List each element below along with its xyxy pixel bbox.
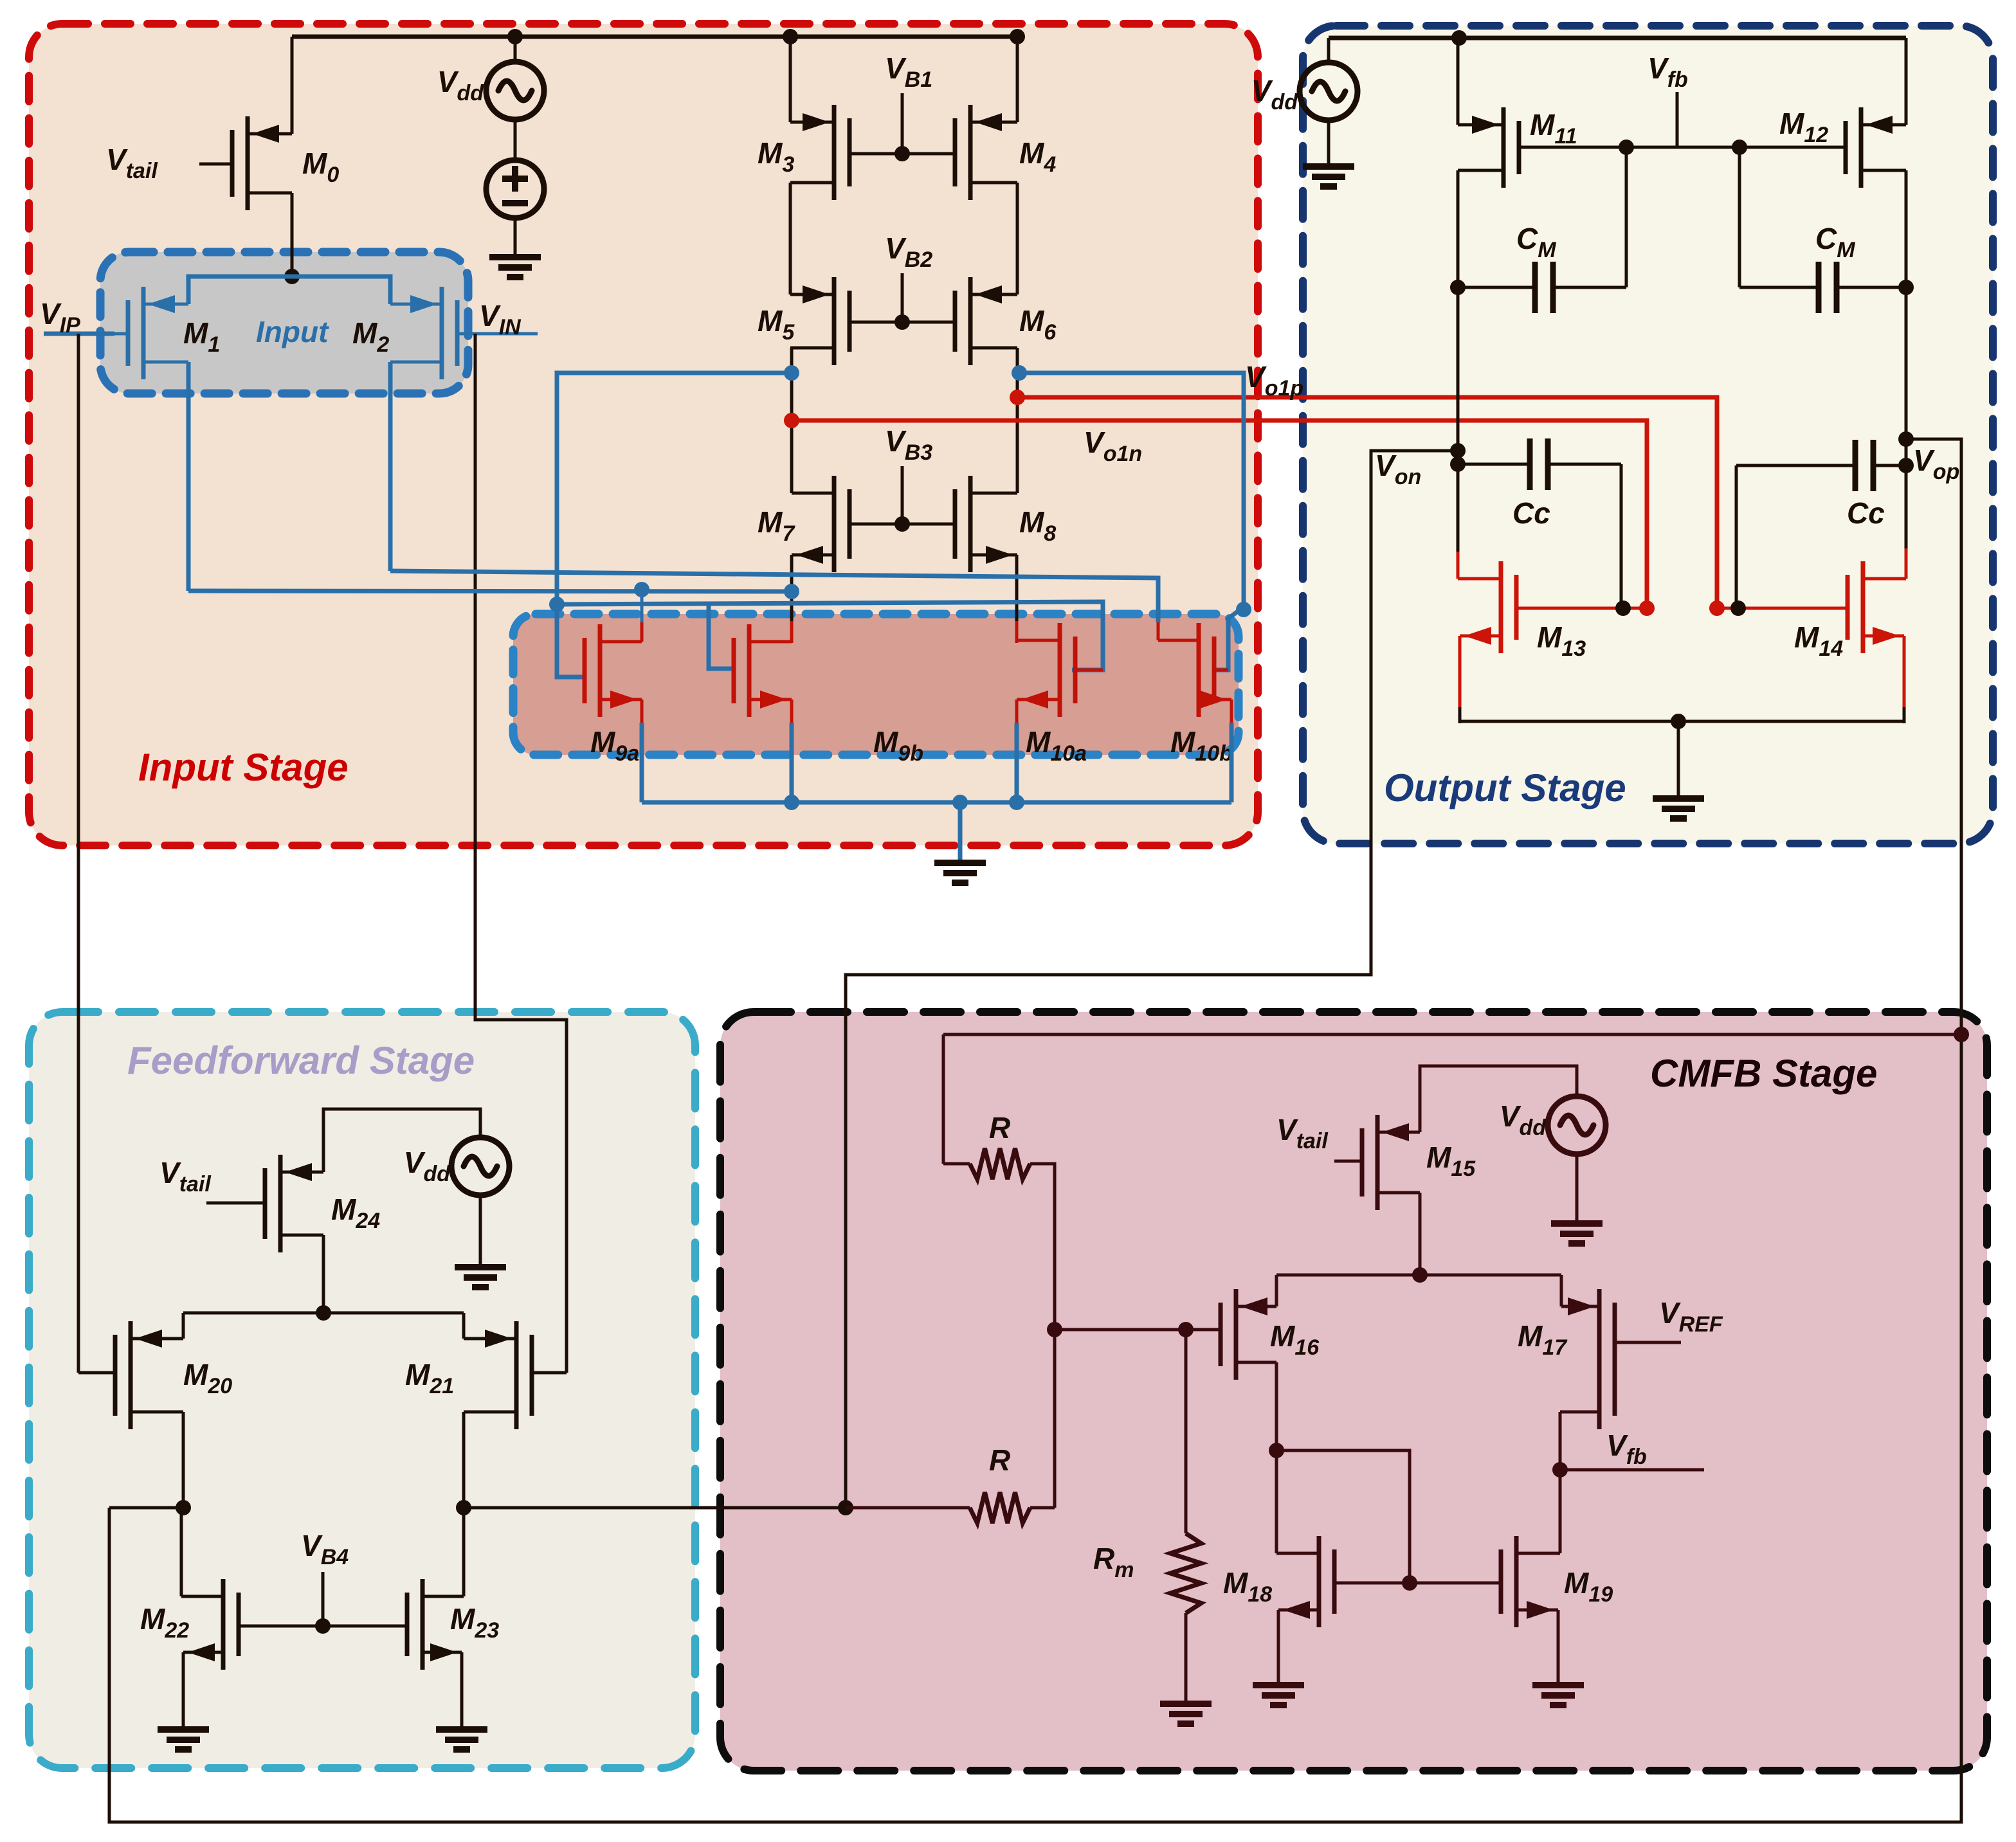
ground (M19)	[1532, 1682, 1584, 1688]
wire M1 drain down	[186, 362, 191, 591]
wire M9/M10 source bus	[642, 800, 1231, 805]
wire M24 source down to pair	[322, 1235, 325, 1313]
wire M12 source to rail	[1905, 38, 1908, 125]
wire Rm to ground	[1185, 1613, 1188, 1703]
wire M2 drain down	[388, 362, 393, 571]
node dot M1-line end	[784, 584, 799, 599]
svg-text:R: R	[989, 1443, 1010, 1477]
wire Vfb stub to gate line	[1676, 92, 1679, 147]
CMFB Stage box	[720, 1012, 1987, 1771]
node dot right cascode output (blue)	[1012, 365, 1027, 381]
capacitor Cc (left)	[1458, 463, 1530, 466]
transistor M7	[832, 476, 837, 572]
wire M20 drain node to Vop loop	[109, 1506, 183, 1510]
wire right output to M10b gate	[1019, 373, 1244, 670]
wire M7 source down to M9b drain	[790, 555, 794, 622]
wire M10a source down to bus	[1015, 700, 1019, 724]
node dot CM-right tap on gate line	[1732, 140, 1747, 155]
wire between Vdd source and battery	[514, 120, 517, 160]
wire midpoint to M16 gate	[1055, 1328, 1222, 1332]
wire Vop to CMFB top rail and bottom loop	[109, 439, 1961, 1822]
node dot M16 drain / M18 diode	[1269, 1443, 1284, 1458]
node dot bus M9b	[784, 795, 799, 810]
wire Vo1p (red) to output stage M14 gate	[1017, 397, 1717, 608]
transistor M1 (blue input PMOS)	[141, 287, 146, 379]
transistor M22	[221, 1579, 226, 1670]
wire tail bus to ground	[1677, 721, 1680, 798]
node dot Vop lower (Cc)	[1898, 458, 1914, 473]
wire M11 drain down	[1457, 170, 1460, 553]
wire battery to ground	[514, 218, 517, 257]
wire M3 drain to M5 source	[789, 183, 792, 294]
wire M16 source up	[1275, 1275, 1278, 1306]
node dot M14 gate end (Vo1p)	[1709, 600, 1725, 616]
wire M23 drain up to M21	[462, 1508, 466, 1596]
resistor R (upper)	[943, 1162, 970, 1166]
wire M19 drain up to M17 drain	[1559, 1412, 1562, 1553]
wire M3 source to rail	[789, 37, 792, 122]
capacitor CM (left)	[1458, 286, 1536, 289]
node dot gate line start	[549, 597, 565, 612]
node dot M4 rail	[1010, 29, 1025, 44]
wire upper R to midpoint	[1030, 1164, 1055, 1508]
battery symbol (input stage bias)	[486, 160, 544, 218]
transistor M11	[1502, 107, 1506, 188]
transistor M17	[1597, 1289, 1602, 1429]
node dot M13 gate end (Vo1n)	[1639, 600, 1655, 616]
node dot CM right	[1898, 280, 1914, 295]
ground (output stage Vdd)	[1303, 163, 1354, 170]
Input pair grey box	[100, 252, 468, 393]
wire VB4 stub	[322, 1572, 325, 1626]
transistor M12	[1859, 107, 1864, 188]
node dot M21 drain (FF output)	[456, 1500, 471, 1515]
wire M20 drain down	[182, 1412, 185, 1508]
wire M17 source up	[1560, 1275, 1563, 1306]
svg-text:Output Stage: Output Stage	[1384, 766, 1626, 809]
resistor R (lower)	[846, 1506, 970, 1510]
ground (M18)	[1253, 1682, 1304, 1688]
svg-text:Input: Input	[256, 315, 329, 348]
transistor M6	[968, 277, 973, 365]
transistor M0	[246, 116, 250, 210]
wire M19 source to ground	[1557, 1610, 1560, 1684]
wire M9a gate drop	[557, 604, 585, 677]
transistor M16	[1234, 1289, 1239, 1380]
node dot Von/FF junction	[838, 1500, 853, 1515]
wire VIN to feedforward M21 gate	[475, 334, 567, 1373]
wire M20 source up	[182, 1313, 185, 1339]
wire Vdd to ground (output)	[1327, 120, 1330, 166]
wire M22 source to ground	[182, 1652, 185, 1729]
wire output stage tail bus	[1460, 720, 1904, 723]
node dot CM-left tap on gate line	[1619, 140, 1634, 155]
node dot Vop sense	[1954, 1027, 1969, 1042]
node dot M9a drain tap	[634, 582, 649, 597]
transistor M20	[129, 1321, 133, 1429]
wire M15 drain up and to Vdd	[1420, 1066, 1577, 1132]
wire M18 diode connection	[1276, 1450, 1410, 1583]
wire M20/M21 source rail	[183, 1312, 464, 1315]
transistor M23	[421, 1579, 425, 1670]
svg-text:R: R	[989, 1111, 1010, 1144]
transistor M9a	[598, 624, 603, 717]
node dot CM left	[1450, 280, 1466, 295]
wire M1 drain line to left cascode node	[188, 591, 792, 591]
wire CMFB top rail (Vop sense)	[943, 1033, 1961, 1036]
Output Stage box	[1303, 26, 1993, 844]
node dot M3 rail	[783, 29, 798, 44]
svg-text:Cc: Cc	[1512, 496, 1550, 530]
wire output stage top rail	[1329, 36, 1906, 41]
node: M0/M1/M2 common source dot	[284, 269, 300, 284]
wire M23 source to ground	[460, 1652, 464, 1729]
wire VIP input lead	[44, 332, 114, 336]
transistor M10a	[1058, 623, 1062, 717]
wire M9a source down to bus	[640, 700, 644, 724]
wire M18 source to ground	[1277, 1610, 1280, 1684]
transistor M19	[1514, 1536, 1519, 1627]
wire M9b gate tap	[709, 604, 734, 669]
svg-text:Input Stage: Input Stage	[138, 746, 349, 789]
transistor M15	[1376, 1115, 1380, 1210]
node dot bus M10a	[1009, 795, 1024, 810]
wire M4 drain to M6 source	[1016, 183, 1019, 294]
wire VB2 stub	[901, 273, 904, 322]
ground (Rm)	[1160, 1701, 1212, 1707]
wire Rm upper leg	[1185, 1330, 1188, 1533]
wire M16 drain down	[1275, 1362, 1278, 1553]
wire M9a drain up to tap	[640, 621, 644, 642]
wire M2 drain line to right cascode node	[390, 571, 1019, 577]
wire M10b drain up to right node	[1157, 621, 1160, 640]
wire M10b source down to bus	[1230, 700, 1233, 724]
transistor M3	[832, 105, 837, 200]
wire M16/M17 source rail	[1276, 1274, 1561, 1277]
ground (M22)	[158, 1726, 209, 1733]
wire rail to Vdd source (output)	[1327, 38, 1330, 62]
node dot M13 gate / Cc tap	[1615, 600, 1631, 616]
ground (CMFB Vdd)	[1551, 1220, 1603, 1227]
ground (input stage tail)	[934, 860, 986, 866]
node dot M20/M21 common source	[316, 1305, 331, 1321]
node dot Vfb output	[1552, 1462, 1568, 1477]
voltage source Vdd (CMFB)	[1548, 1096, 1606, 1154]
transistor M13 (red)	[1499, 561, 1503, 653]
wire M0 source down to input pair	[291, 193, 294, 276]
node dot left cascode output (blue)	[784, 365, 799, 381]
capacitor Cc (right)	[1736, 464, 1856, 467]
wire M1/M2 common source rail	[188, 276, 390, 304]
node dot Von upper	[1450, 443, 1466, 458]
wire: top supply rail	[292, 35, 1017, 39]
svg-text:Feedforward Stage: Feedforward Stage	[127, 1039, 475, 1082]
wire FF output to CMFB lower R	[464, 1506, 846, 1510]
wire VB1 stub	[901, 93, 904, 154]
wire VIP to feedforward M20 gate	[77, 334, 80, 1373]
wire M13 source down	[1458, 636, 1462, 709]
transistor M5	[832, 277, 837, 365]
transistor M10b	[1197, 623, 1201, 717]
ground (M23)	[436, 1726, 487, 1733]
transistor M14 (red)	[1861, 561, 1866, 653]
wire M6 drain to M8 drain (node Vo1p)	[1016, 348, 1019, 493]
node dot M11 source on rail	[1451, 30, 1467, 46]
Feedforward Stage box	[29, 1012, 695, 1768]
svg-text:Vdd: Vdd	[1251, 74, 1298, 114]
wire M9 gate line (blue)	[557, 602, 1103, 670]
node dot VB2 gate line	[894, 314, 910, 330]
svg-text:Cc: Cc	[1847, 496, 1885, 530]
wire M4 source to rail	[1016, 37, 1019, 122]
node dot Vop upper	[1898, 431, 1914, 447]
node dot Rm tap	[1178, 1322, 1194, 1337]
transistor M8	[968, 476, 973, 572]
voltage source Vdd (input stage)	[486, 62, 544, 120]
node Vdd branch dot on rail	[507, 29, 523, 44]
wire M0 drain to rail	[291, 37, 294, 134]
transistor M4	[968, 105, 973, 200]
resistor Rm	[1170, 1533, 1201, 1613]
Input Stage box	[29, 24, 1258, 845]
voltage source Vdd (output stage)	[1300, 62, 1358, 120]
node dot M18 gate line	[1402, 1575, 1417, 1591]
wire Vo1n (red) to output stage M13 gate	[792, 420, 1647, 608]
wire Vdd to ground (feedforward)	[479, 1195, 482, 1267]
node dot VB4	[315, 1618, 331, 1634]
wire M21 drain down	[462, 1412, 466, 1508]
transistor M2 (blue input PMOS)	[440, 287, 444, 379]
wire rail to Vdd source	[514, 37, 517, 62]
node dot Vo1n at M5/M7 drain	[784, 413, 799, 428]
node dot M10b gate corner	[1236, 602, 1251, 617]
node dot M20 drain / M22 drain	[176, 1500, 191, 1515]
transistor M24	[278, 1155, 283, 1252]
wire Vdd to ground (CMFB)	[1576, 1154, 1579, 1223]
wire M15 source down	[1419, 1193, 1422, 1275]
transistor M21	[514, 1321, 519, 1429]
wire M5 drain to M7 drain (node Vo1n)	[790, 348, 794, 493]
ground (output stage)	[1653, 795, 1704, 802]
wire M14 source down	[1903, 636, 1906, 709]
ground (feedforward Vdd)	[455, 1264, 506, 1270]
wire M12 drain down	[1905, 170, 1908, 550]
wire M11 source to rail	[1457, 38, 1460, 125]
node dot M16/M17 source rail	[1412, 1267, 1428, 1283]
node dot bus ground stem	[952, 795, 968, 810]
transistor M18	[1317, 1536, 1321, 1627]
wire bus to ground	[958, 802, 963, 862]
node dot M14 gate / Cc tap	[1730, 600, 1746, 616]
node dot tail bus ground	[1671, 714, 1686, 729]
ground (input stage Vdd branch)	[489, 254, 541, 260]
node dot VB1 gate line	[894, 146, 910, 161]
wire Von to CMFB	[846, 451, 1458, 1508]
node dot VB3 gate line	[894, 516, 910, 532]
voltage source Vdd (feedforward)	[451, 1137, 509, 1195]
transistor M9b	[747, 624, 752, 717]
capacitor CM (right)	[1739, 286, 1819, 289]
wire upper R left leg	[942, 1034, 945, 1164]
wire M24 drain up and over to Vdd	[323, 1109, 480, 1172]
wire VB3 stub	[901, 466, 904, 524]
svg-text:CMFB Stage: CMFB Stage	[1650, 1052, 1877, 1095]
wire M9b source down to bus	[790, 700, 794, 724]
node dot R midpoint	[1047, 1322, 1062, 1337]
node dot Vo1p at M6/M8 drain	[1010, 390, 1025, 405]
wire left output to M9a/M9b gates	[557, 373, 792, 604]
wire M21 source up	[462, 1313, 466, 1339]
node dot Von lower (Cc)	[1450, 456, 1466, 472]
M9/M10 group pink box	[513, 614, 1239, 755]
wire M8 source down to M10a drain	[1015, 555, 1019, 622]
wire Vfb output lead	[1560, 1468, 1704, 1472]
wire M22 drain up to M20	[180, 1508, 183, 1596]
